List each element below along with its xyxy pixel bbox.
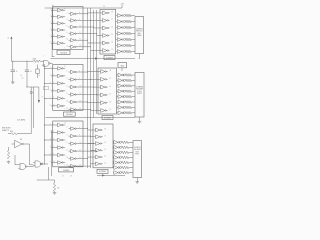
IC U1 hex inverter body xyxy=(53,7,83,50)
pin number U5A xyxy=(53,124,54,126)
pin number U1 gnd xyxy=(64,48,65,50)
pin number U5 vcc xyxy=(64,123,66,125)
svg-text:SHEET 2: SHEET 2 xyxy=(2,130,9,132)
wire U5E input pin xyxy=(44,154,55,157)
value text 7404 xyxy=(43,56,44,58)
wire bottom vertical xyxy=(48,167,50,180)
pin number U1A outside xyxy=(50,9,51,11)
wire U4B input xyxy=(91,78,99,80)
pin number U4F out xyxy=(109,109,111,111)
inverter U3A xyxy=(56,67,66,71)
svg-text:ULN2803: ULN2803 xyxy=(104,117,111,119)
pin number U1B xyxy=(53,15,54,17)
wire U1H output xyxy=(78,19,91,22)
buffer U4A xyxy=(98,70,107,74)
inverter U3E xyxy=(56,97,66,101)
value text C1 xyxy=(21,75,23,77)
lamp indicator DS7 xyxy=(123,51,125,53)
svg-text:17: 17 xyxy=(109,78,111,80)
resistor R2 xyxy=(126,20,135,23)
IC U3 hex inverter body xyxy=(53,64,83,110)
pin number U3E outside xyxy=(50,97,51,99)
pin number U1E outside xyxy=(50,35,51,37)
wire U4D input xyxy=(97,94,99,96)
pin number U4E out xyxy=(109,101,111,103)
wire arrow signal tap xyxy=(38,87,40,103)
nand gate U7C xyxy=(33,161,44,167)
svg-text:15: 15 xyxy=(104,149,106,151)
pin number U3H output side xyxy=(79,78,80,80)
inverter U5G xyxy=(69,127,79,131)
buffer U6A xyxy=(93,128,102,132)
wire driver ground rail xyxy=(97,174,125,176)
svg-text:13: 13 xyxy=(111,49,113,51)
svg-text:10: 10 xyxy=(67,101,69,103)
lamp indicator DS2 xyxy=(123,21,125,23)
svg-text:11: 11 xyxy=(79,32,81,34)
pin number U1 vcc xyxy=(64,8,66,10)
pin number U5E xyxy=(53,154,54,156)
IC U6 driver body xyxy=(93,124,113,168)
pin number U3B xyxy=(53,74,54,76)
svg-text:10: 10 xyxy=(79,25,81,27)
IC U2 driver body xyxy=(100,9,116,54)
inverter U5C xyxy=(56,138,66,142)
junction arrow separator xyxy=(95,57,98,60)
driver gate U4 output stage 1 xyxy=(117,73,124,77)
resistor R9 xyxy=(126,74,136,77)
svg-text:14: 14 xyxy=(64,8,66,10)
lamp indicator DS1 xyxy=(123,15,125,17)
value text C2 xyxy=(39,75,41,77)
nand gate U7B xyxy=(18,163,29,169)
pin number U5G output side xyxy=(79,127,80,129)
driver gate U2 output stage 5 xyxy=(116,38,124,42)
nand gate U7A oscillator xyxy=(42,60,53,66)
ground C1 xyxy=(11,81,15,84)
pin number U5F xyxy=(53,161,55,163)
inverter U3J xyxy=(69,93,79,97)
pin number U5H output side xyxy=(79,135,80,137)
pin number U3D outside xyxy=(50,89,51,91)
resistor R23 xyxy=(122,171,133,174)
lamp indicator DS6 xyxy=(123,45,125,47)
pin number U5I output side xyxy=(79,142,81,144)
wire U6C input xyxy=(88,143,94,145)
resistor R21 xyxy=(122,161,133,164)
lamp indicator DS9 xyxy=(123,74,125,76)
svg-text:10: 10 xyxy=(79,142,81,144)
svg-text:15: 15 xyxy=(111,34,113,36)
svg-text:11: 11 xyxy=(53,42,55,44)
wire U6D input xyxy=(91,149,94,151)
resistor R17 xyxy=(122,141,133,144)
resistor R16 xyxy=(126,112,136,115)
wire mid vertical bus 3 xyxy=(93,10,95,118)
svg-text:11: 11 xyxy=(53,104,55,106)
op-amp U8 buffer xyxy=(12,139,26,148)
resistor R12 xyxy=(126,90,136,93)
svg-text:3X: 3X xyxy=(22,78,24,80)
buffer U2A xyxy=(100,11,109,15)
svg-text:74LS04: 74LS04 xyxy=(66,114,73,116)
pin number U5I xyxy=(67,142,68,144)
wire U1G output xyxy=(78,12,88,15)
pin number U4B out xyxy=(109,78,111,80)
lamp indicator DS22 xyxy=(119,167,121,169)
wire mid vertical bus 2 xyxy=(90,8,92,168)
svg-text:10: 10 xyxy=(39,75,41,77)
wire bottom horizontal xyxy=(37,179,49,181)
pin number U5J output side xyxy=(79,150,81,152)
pin number U1G xyxy=(67,12,68,14)
inverter U1C xyxy=(56,22,66,26)
inverter U5E xyxy=(56,153,66,157)
svg-text:10: 10 xyxy=(16,71,18,73)
wire section1-2 separator xyxy=(51,58,136,60)
svg-text:11: 11 xyxy=(53,161,55,163)
note text near arrow xyxy=(42,97,44,99)
resistor R27 xyxy=(7,147,9,159)
svg-text:10: 10 xyxy=(30,71,32,73)
inverter U5J xyxy=(69,149,79,153)
svg-text:14: 14 xyxy=(104,156,106,158)
pin number U3K output side xyxy=(79,100,81,102)
driver gate U2 output stage 6 xyxy=(116,44,124,48)
pin number U3D xyxy=(53,89,54,91)
svg-text:10: 10 xyxy=(67,157,69,159)
value text mid xyxy=(22,78,24,80)
svg-text:12: 12 xyxy=(79,157,81,159)
resistor R10 xyxy=(126,79,136,82)
wire U4C input xyxy=(94,86,99,88)
wire U5A input pin xyxy=(44,124,55,127)
pin number U3E xyxy=(53,97,54,99)
buffer U2B xyxy=(100,19,109,23)
wire left vertical trunk xyxy=(44,64,46,164)
wire U4F input xyxy=(91,110,99,112)
svg-text:16: 16 xyxy=(109,86,111,88)
pin number U5C xyxy=(53,139,54,141)
svg-text:74LS04: 74LS04 xyxy=(60,52,67,54)
wire U1J output xyxy=(78,32,97,35)
pin number U5 gnd xyxy=(64,165,65,167)
inverter U5A xyxy=(56,123,66,127)
wire U2A input xyxy=(88,12,101,14)
wire U6E input xyxy=(88,156,94,158)
lamp indicator DS3 xyxy=(123,27,125,29)
resistor R26 xyxy=(8,131,31,135)
pin number U1E xyxy=(53,35,54,37)
wire U3D input stub xyxy=(51,90,56,92)
inverter U1D xyxy=(56,28,66,32)
pin number U2C out xyxy=(111,27,113,29)
pin number U5E outside xyxy=(50,153,51,155)
wire U6F input xyxy=(91,163,94,165)
wire U4E input xyxy=(88,102,99,104)
svg-text:17: 17 xyxy=(62,176,64,178)
wire rail tick xyxy=(52,5,54,8)
pin number U3J output side xyxy=(79,93,81,95)
svg-text:+5: +5 xyxy=(7,38,9,40)
pin number U1I output side xyxy=(79,25,81,27)
pin number U1I xyxy=(67,26,68,28)
svg-text:14: 14 xyxy=(111,42,113,44)
wire U5L output xyxy=(78,165,91,168)
label box U5 part number xyxy=(59,168,74,172)
svg-text:11: 11 xyxy=(79,93,81,95)
svg-text:ULN2803: ULN2803 xyxy=(99,171,106,173)
wire oscillator out xyxy=(51,62,53,64)
inverter U3H xyxy=(69,78,79,82)
pin number U6C out xyxy=(104,142,106,144)
junction arrow U7C xyxy=(40,163,42,165)
pin number U3J xyxy=(67,93,68,95)
wire left vertical trunk lower xyxy=(50,130,52,176)
pin number U5C outside xyxy=(50,138,51,140)
pin number U5K output side xyxy=(79,157,81,159)
resistor R18 xyxy=(122,146,133,149)
svg-text:13: 13 xyxy=(79,165,81,167)
buffer U4F xyxy=(98,109,107,113)
driver gate U4 output stage 4 xyxy=(117,89,124,93)
wire GND ref down xyxy=(121,68,123,71)
pin number U5K xyxy=(67,157,69,159)
wire +5V rail riser xyxy=(121,5,123,8)
inverter U5D xyxy=(56,146,66,150)
wire U2E input xyxy=(88,42,101,44)
wire U3L output xyxy=(78,108,91,111)
lamp indicator DS17 xyxy=(119,141,121,143)
label box U1 part number xyxy=(57,50,70,54)
inverter U3D xyxy=(56,89,66,93)
label box GND ref xyxy=(118,63,127,68)
lamp indicator DS14 xyxy=(123,101,125,103)
wire mid vertical bus 4 xyxy=(96,10,98,114)
wire U5F input stub xyxy=(51,162,56,164)
svg-text:CLK 4MHz: CLK 4MHz xyxy=(17,120,25,122)
buffer U2F xyxy=(100,49,109,53)
wire U2F input xyxy=(91,50,101,52)
pin number U4A out xyxy=(109,70,111,72)
node +5V rail label xyxy=(121,3,125,5)
lamp indicator DS15 xyxy=(123,106,125,108)
pin number U2A out xyxy=(111,12,113,14)
buffer U4E xyxy=(98,101,107,105)
lamp indicator DS4 xyxy=(123,33,125,35)
wire U3E input pin xyxy=(44,97,55,100)
svg-text:PORT: PORT xyxy=(137,93,143,95)
resistor R3 xyxy=(126,26,135,29)
resistor R5 xyxy=(126,38,135,41)
wire cap2 bottom rail xyxy=(26,86,39,88)
ground R28 xyxy=(53,192,57,195)
pin number U4C out xyxy=(109,86,111,88)
wire U5K output xyxy=(78,157,88,160)
driver gate U6 output stage 7 xyxy=(113,171,120,175)
buffer U4B xyxy=(98,77,107,81)
buffer U2E xyxy=(100,41,109,45)
capacitor C1 xyxy=(11,61,18,81)
svg-text:17: 17 xyxy=(111,19,113,21)
resistor R14 xyxy=(126,101,136,104)
svg-text:18: 18 xyxy=(70,176,72,178)
wire IC1 section1 left edge feed xyxy=(52,8,54,57)
inverter U1B xyxy=(56,15,66,18)
wire U1L output xyxy=(78,45,91,48)
inverter U1F xyxy=(56,41,66,45)
driver gate U6 output stage 1 xyxy=(113,140,120,144)
driver gate U4 output stage 5 xyxy=(117,95,124,99)
buffer U4C xyxy=(98,85,107,89)
lamp indicator DS5 xyxy=(123,39,125,41)
pin number U3F outside xyxy=(50,104,51,106)
pin number U6B out xyxy=(104,135,106,137)
driver gate U2 output stage 4 xyxy=(116,32,124,36)
wire U3G output xyxy=(78,71,88,74)
ground R27 xyxy=(7,161,11,164)
inverter U1K xyxy=(69,38,79,42)
svg-text:10: 10 xyxy=(21,75,23,77)
lamp indicator DS11 xyxy=(123,85,125,87)
pin number U3I xyxy=(67,86,68,88)
svg-text:16: 16 xyxy=(104,142,106,144)
svg-text:13: 13 xyxy=(79,108,81,110)
pin number U1D outside xyxy=(50,28,51,30)
pin number U5L output side xyxy=(79,165,81,167)
svg-text:13: 13 xyxy=(109,109,111,111)
pin number U1B outside xyxy=(50,15,51,17)
driver gate U6 output stage 2 xyxy=(113,145,120,149)
connector J2 body xyxy=(135,73,144,118)
wire oscillator rail xyxy=(11,60,33,62)
driver gate U6 output stage 6 xyxy=(113,166,120,170)
pin number U3C xyxy=(53,82,54,84)
pin number U1K xyxy=(67,39,69,41)
ground J3 xyxy=(135,181,139,184)
svg-text:12: 12 xyxy=(67,165,69,167)
resistor R4 xyxy=(126,32,135,35)
wire U3J output xyxy=(78,93,97,96)
inverter U1A xyxy=(56,8,66,12)
pin number U1F outside xyxy=(50,42,51,44)
wire R28 feed xyxy=(49,180,55,183)
resistor R13 xyxy=(126,95,136,98)
connector J3 body xyxy=(133,141,142,178)
pin number U5G xyxy=(67,127,68,129)
wire U8 out down xyxy=(26,144,33,165)
junction blob Q1 xyxy=(30,91,32,93)
wire U7B out xyxy=(29,165,33,168)
resistor R15 xyxy=(126,106,136,109)
inverter U1G xyxy=(69,12,79,16)
driver gate U2 output stage 1 xyxy=(116,14,124,18)
buffer U6B xyxy=(93,135,102,139)
pin number U3 vcc xyxy=(64,66,66,68)
inverter U5I xyxy=(69,142,79,146)
inverter U3L xyxy=(69,108,79,112)
pin number U3C outside xyxy=(50,82,51,84)
wire oscillator vcc xyxy=(10,45,12,61)
svg-text:18: 18 xyxy=(111,12,113,14)
wire U2B input xyxy=(91,19,101,21)
wire U6B input xyxy=(91,136,94,138)
driver gate U4 output stage 3 xyxy=(117,84,124,88)
svg-text:24: 24 xyxy=(103,6,105,8)
wire U1K output xyxy=(78,39,88,42)
pin number U6A out xyxy=(104,129,106,131)
pin number U6D out xyxy=(104,149,106,151)
crystal Y1 xyxy=(36,65,39,79)
pin number U1F xyxy=(53,42,55,44)
note text see sheet xyxy=(2,128,11,133)
IC U4 driver body xyxy=(98,68,117,114)
driver gate U4 output stage 2 xyxy=(117,79,124,83)
junction arrow ground rail xyxy=(102,174,105,176)
pin number U3H xyxy=(67,78,68,80)
lamp indicator DS13 xyxy=(123,96,125,98)
pin number U6F out xyxy=(104,163,106,165)
resistor R6 xyxy=(126,44,135,47)
wire J3 ground lead xyxy=(136,178,138,181)
resistor R1 xyxy=(126,14,135,17)
resistor R11 xyxy=(126,85,136,88)
wire U3A input pin xyxy=(44,67,55,70)
wire mid-left vertical 2 xyxy=(33,87,35,128)
pin number U5L xyxy=(67,165,69,167)
wire U7C out to bus xyxy=(44,163,48,166)
pin number U1H output side xyxy=(79,19,80,21)
svg-text:14: 14 xyxy=(64,66,66,68)
pin number U1L xyxy=(67,45,69,47)
wire U6A input xyxy=(88,129,94,131)
driver gate U4 output stage 6 xyxy=(117,100,124,104)
resistor R20 xyxy=(122,156,133,159)
lamp indicator DS18 xyxy=(119,146,121,148)
label speck box left xyxy=(44,86,49,90)
pin number U1G output side xyxy=(79,12,80,14)
capacitor C2 xyxy=(25,61,32,87)
wire U3K output xyxy=(78,101,88,104)
pin number U2E out xyxy=(111,42,113,44)
wire section2-3 separator xyxy=(46,117,136,119)
label box U3 part number xyxy=(64,112,76,116)
wire U1C input stub xyxy=(51,22,56,24)
lamp indicator DS16 xyxy=(123,112,125,114)
wire U1D input stub xyxy=(51,29,56,31)
inverter U5B xyxy=(56,131,66,135)
inverter U3B xyxy=(56,74,66,78)
wire U3H output xyxy=(78,78,91,81)
inverter U1I xyxy=(69,25,79,29)
pin number U6E out xyxy=(104,156,106,158)
power +5V supply arrow xyxy=(7,36,13,45)
driver gate U2 output stage 3 xyxy=(116,26,124,30)
driver gate U2 output stage 2 xyxy=(116,20,124,24)
IC U5 hex inverter body xyxy=(53,121,83,167)
buffer U6F xyxy=(93,162,102,166)
pin number U3L output side xyxy=(79,108,81,110)
resistor R22 xyxy=(122,166,133,169)
wire R25 to gate xyxy=(40,60,42,62)
wire U1I output xyxy=(78,26,94,29)
wire mid-left vertical 1 xyxy=(30,87,32,134)
svg-text:17: 17 xyxy=(104,135,106,137)
wire U5B input stub xyxy=(51,132,56,134)
svg-text:12: 12 xyxy=(79,39,81,41)
pin number U3I output side xyxy=(79,85,81,87)
pin number U3G output side xyxy=(79,70,80,72)
